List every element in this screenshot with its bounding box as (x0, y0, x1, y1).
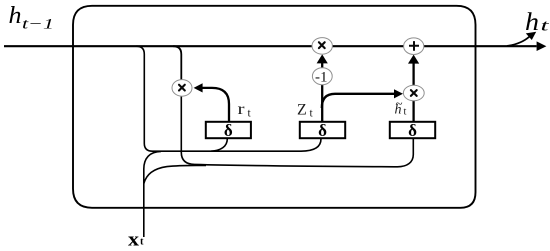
svg-text:~: ~ (396, 95, 403, 110)
arrowhead into x1 (194, 83, 203, 92)
arrowhead main output (537, 41, 547, 51)
svg-text:h: h (9, 2, 22, 29)
svg-text:t: t (310, 108, 314, 120)
svg-text:t−1: t−1 (22, 17, 54, 33)
op minus-one (312, 68, 332, 86)
svg-text:-1: -1 (315, 69, 328, 85)
arrowhead into x2 (317, 54, 328, 63)
op multiply x2 (312, 38, 332, 55)
op multiply x3 (403, 85, 424, 101)
svg-text:h: h (525, 9, 539, 36)
wire main h line (4, 45, 537, 47)
svg-text:δ: δ (318, 121, 327, 140)
wire z gate output up from box (321, 85, 323, 122)
wire z branch to multiply x3 (322, 94, 394, 108)
svg-text:r: r (238, 101, 246, 118)
wire drop1 h branch to r/z gates (136, 46, 301, 151)
svg-text:t: t (404, 107, 407, 118)
wire branch up into r box bottom (211, 139, 227, 151)
wire x_t swoop to candidate feed (144, 165, 206, 183)
gate box h-candidate sigma (390, 121, 435, 140)
arrowhead into plus (408, 55, 419, 64)
wire x1 product down and bend right (181, 96, 194, 164)
arrowhead into x3 (394, 89, 403, 98)
wire L-h candidate feed line (195, 139, 414, 167)
gate box z sigma (300, 121, 345, 140)
svg-text:t: t (541, 17, 550, 34)
svg-text:x: x (128, 230, 140, 251)
wire -1 to multiply x2 (321, 63, 323, 68)
svg-text:t: t (140, 237, 144, 248)
op multiply x1 (172, 80, 192, 97)
svg-text:δ: δ (408, 121, 417, 140)
wire x_t input vertical (144, 151, 161, 237)
wire h candidate from box top into x3 (412, 101, 414, 122)
wire x3 output up to plus (412, 63, 414, 86)
wire hook to h_t label (507, 37, 530, 47)
gate box r sigma (206, 121, 251, 140)
arrowhead hook (526, 32, 536, 40)
wire r gate output curve into x1 (203, 88, 230, 122)
wire L-rz end curve into z box bottom (301, 139, 321, 151)
svg-text:δ: δ (224, 121, 233, 140)
wire drop2 h branch into multiply x1 (173, 46, 181, 80)
op plus (404, 38, 424, 55)
cell boundary rounded rectangle (73, 6, 476, 208)
svg-text:Z: Z (297, 101, 307, 118)
svg-text:t: t (248, 108, 252, 120)
